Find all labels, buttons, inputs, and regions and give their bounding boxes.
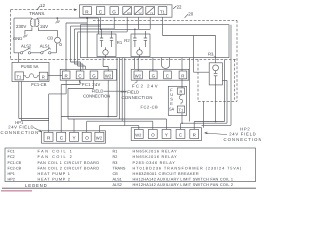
svg-text:230V: 230V <box>16 24 26 29</box>
svg-text:G: G <box>152 74 156 79</box>
svg-text:5A: 5A <box>169 107 174 112</box>
svg-text:C: C <box>78 74 81 79</box>
svg-text:C: C <box>99 9 103 14</box>
node 24V bus ground tap <box>56 17 58 19</box>
dashed bottom edge spanning units <box>11 58 238 60</box>
thermostat 22 outline <box>80 5 173 17</box>
dashed enclosure unit 20 top edge <box>93 19 237 21</box>
FC2 terminal W2 <box>134 71 142 79</box>
svg-text:FC2-CB: FC2-CB <box>141 105 159 110</box>
wire thermostat C drop <box>100 17 102 29</box>
FC1 terminal strip outline <box>60 69 116 80</box>
wire transformer primary bottom to GND <box>25 27 32 34</box>
fuse block FC2-CB outline <box>168 86 186 115</box>
arrow HP1 label <box>34 128 42 132</box>
wire FC1 W2 down to C bus <box>107 80 109 116</box>
HP1 terminal W2 <box>95 132 104 141</box>
wire T1 to R3 run <box>163 36 216 73</box>
wire FC2 R aux drop <box>189 58 191 122</box>
legend rows <box>8 150 243 188</box>
reference numeral 20 <box>185 11 194 17</box>
dashed enclosure unit 12 top edge with arrow <box>11 9 73 11</box>
transformer secondary coil <box>36 19 39 27</box>
svg-text:ALS2: ALS2 <box>113 183 122 187</box>
svg-text:G: G <box>92 74 96 79</box>
HP1 terminal Y <box>70 132 79 141</box>
svg-text:HN65KJ016 RELAY: HN65KJ016 RELAY <box>133 150 178 154</box>
wire CB to ALS1 <box>51 43 57 53</box>
svg-text:FIELD: FIELD <box>127 89 139 94</box>
svg-text:FAN COIL 1 CIRCUIT BOARD: FAN COIL 1 CIRCUIT BOARD <box>38 161 100 165</box>
node fuse bus <box>181 122 183 124</box>
wire transformer secondary bottom to CB <box>38 27 57 37</box>
FC1 terminal W2 <box>104 71 113 79</box>
thermostat terminal G <box>110 7 118 15</box>
svg-text:12: 12 <box>40 3 45 8</box>
svg-text:W2: W2 <box>96 135 103 140</box>
svg-text:HEAT PUMP 1: HEAT PUMP 1 <box>38 172 71 176</box>
ground chassis symbol <box>55 18 60 23</box>
svg-text:LEGEND: LEGEND <box>25 183 47 188</box>
wire C bus <box>61 58 117 117</box>
HP2 terminal O <box>148 130 157 139</box>
fuse terminal R vertical block <box>177 88 184 94</box>
relay R2 contact a <box>133 29 136 47</box>
svg-text:Y1: Y1 <box>150 12 154 15</box>
svg-text:Y2: Y2 <box>138 12 142 15</box>
wire right bus to HP2 R <box>194 59 224 129</box>
HP2 terminal R <box>190 130 199 139</box>
svg-text:T1: T1 <box>160 9 166 14</box>
circuit breaker CB <box>47 36 62 46</box>
FC1 terminal R <box>62 71 70 79</box>
svg-text:G: G <box>112 9 116 14</box>
bottom rule <box>2 187 256 189</box>
svg-text:O: O <box>85 136 89 141</box>
arrowhead into thermostat <box>74 9 77 11</box>
label FC1 24V with hook <box>79 80 81 83</box>
wire FC2 R drop to fuse <box>181 58 183 88</box>
thermostat terminal R <box>83 7 91 15</box>
wire fuse T1 down <box>19 82 49 121</box>
svg-text:R3: R3 <box>208 52 214 57</box>
relay R1 contact b <box>110 31 113 47</box>
wire fuse T1 down to HP2 C <box>181 113 183 130</box>
svg-text:W2: W2 <box>127 12 131 15</box>
svg-text:R2: R2 <box>124 38 130 43</box>
reference numeral 22 <box>173 5 182 10</box>
relay R2 contact b <box>144 31 147 47</box>
wire HP2 side drop <box>202 101 204 127</box>
svg-text:FAN COIL 1: FAN COIL 1 <box>38 150 74 154</box>
wire ALS2 to fuse T1 <box>14 53 20 63</box>
svg-text:W2: W2 <box>135 132 142 137</box>
svg-text:CONNECTION: CONNECTION <box>1 130 40 135</box>
svg-text:HP2: HP2 <box>8 178 15 182</box>
wire fuse R to FC1 R <box>48 75 63 77</box>
wire FC1 C down to HP1 C <box>61 80 80 132</box>
relay R2 box <box>131 34 150 57</box>
svg-text:FC1: FC1 <box>8 150 15 154</box>
svg-text:FC1-CB: FC1-CB <box>8 161 22 165</box>
HP2 terminal W2 <box>134 130 143 139</box>
wire R3 right to bus <box>182 80 227 123</box>
transformer core <box>34 19 35 27</box>
svg-text:R: R <box>180 89 183 94</box>
svg-text:TRANS: TRANS <box>113 166 126 170</box>
svg-text:CB: CB <box>113 172 119 176</box>
wire stair bus 3 <box>74 29 114 69</box>
svg-text:ALS1: ALS1 <box>113 178 122 182</box>
dashed enclosure unit 12 left edge <box>10 10 12 60</box>
arrow HP2 label <box>205 132 228 135</box>
svg-text:FC2 24V: FC2 24V <box>132 83 159 88</box>
svg-text:HP2: HP2 <box>240 126 250 131</box>
wire Y bus <box>68 58 167 133</box>
svg-text:R1: R1 <box>113 150 118 154</box>
dashed enclosure unit 20 right edge <box>236 20 238 101</box>
svg-text:HP1: HP1 <box>8 172 15 176</box>
svg-text:HEAT PUMP 2: HEAT PUMP 2 <box>38 178 71 182</box>
svg-text:FC2: FC2 <box>8 155 15 159</box>
reference numeral 12 <box>37 3 45 9</box>
fuse block FC1-CB outline <box>12 62 49 81</box>
HP1 terminal O <box>82 132 91 141</box>
HP2 terminal Y <box>162 130 171 139</box>
HP1 terminal strip outline <box>42 131 106 143</box>
node W2 on C bus <box>107 116 109 118</box>
node R bus junction <box>86 17 88 19</box>
svg-text:20: 20 <box>188 11 193 16</box>
wire FC1 G down to Y bus <box>68 80 94 119</box>
node relay bus 2 <box>134 29 136 31</box>
thermostat terminal C <box>96 7 104 15</box>
svg-text:P283-0346 RELAY: P283-0346 RELAY <box>133 161 176 165</box>
label FIELD right with dash <box>121 91 127 93</box>
wire relay top bus <box>101 28 151 30</box>
dash between field labels <box>104 90 127 92</box>
wire thermostat R drop <box>86 17 88 57</box>
svg-text:ALS2: ALS2 <box>21 44 32 49</box>
svg-text:O: O <box>151 133 155 138</box>
svg-text:CONNECTION: CONNECTION <box>224 137 262 142</box>
FC1 terminal G <box>90 71 98 79</box>
limit switch ALS1 <box>40 44 51 54</box>
legend box <box>5 148 256 182</box>
fuse element vertical <box>179 94 183 104</box>
fuse terminal T1 <box>15 72 24 80</box>
svg-text:R: R <box>65 74 68 79</box>
ground GND symbol <box>23 35 28 38</box>
svg-text:R: R <box>47 136 51 141</box>
svg-text:FC1 24V: FC1 24V <box>82 82 101 87</box>
svg-text:W2: W2 <box>135 74 142 79</box>
relay R2 coil <box>137 50 142 55</box>
wire thermostat G drop <box>113 17 115 29</box>
svg-text:FC1-CB: FC1-CB <box>31 82 46 87</box>
fuse terminal T1 vertical block <box>177 106 184 113</box>
svg-text:W2: W2 <box>105 74 112 79</box>
svg-text:CONNECTION: CONNECTION <box>122 95 153 100</box>
svg-text:E: E <box>170 101 173 106</box>
HP2 terminal C <box>176 130 185 139</box>
svg-text:HN65KJ016 RELAY: HN65KJ016 RELAY <box>133 155 178 159</box>
wire R3 bottom <box>215 85 217 122</box>
thermostat stage switch Y2 <box>134 7 143 15</box>
svg-text:R: R <box>181 74 184 79</box>
svg-text:HH12HA142 AUXILIARY LIMIT SWIT: HH12HA142 AUXILIARY LIMIT SWITCH FAN COI… <box>133 178 234 182</box>
svg-text:FUSE 5A: FUSE 5A <box>21 64 39 69</box>
limit switch ALS2 <box>20 44 32 54</box>
svg-text:CB: CB <box>47 36 53 41</box>
svg-text:GND: GND <box>13 36 22 41</box>
wire thermostat T1 drop <box>162 17 164 35</box>
relay R3 coil <box>213 65 219 71</box>
relay R1 coil <box>103 50 108 55</box>
wire stair bus 1 <box>66 23 87 71</box>
wire right bus to HP2 container <box>202 25 232 126</box>
svg-text:HH12HA142 AUXILIARY LIMIT SWIT: HH12HA142 AUXILIARY LIMIT SWITCH FAN COI… <box>133 183 234 187</box>
relay R1 box <box>97 34 116 57</box>
svg-text:CONNECTION: CONNECTION <box>83 93 110 98</box>
wire hairpin above FC2 C <box>162 58 170 69</box>
svg-text:C: C <box>166 74 169 79</box>
svg-text:HH83ZB001 CIRCUIT BREAKER: HH83ZB001 CIRCUIT BREAKER <box>133 172 199 176</box>
FC2 terminal strip outline <box>131 69 189 80</box>
wire O bus <box>87 58 153 133</box>
svg-text:T1: T1 <box>179 108 184 113</box>
wire FC2 W2 drop from box <box>135 58 139 71</box>
wire FC2 G drop from box <box>152 58 154 71</box>
svg-text:C: C <box>179 133 182 138</box>
fuse terminal R <box>39 72 48 80</box>
HP2 terminal strip outline <box>131 128 201 141</box>
relay R1 contact a <box>100 29 103 47</box>
svg-text:R2: R2 <box>113 155 118 159</box>
fuse element <box>24 74 40 78</box>
relay R3 contact <box>214 71 218 85</box>
svg-text:R: R <box>42 75 45 80</box>
thermostat stage switch W2 <box>123 7 132 15</box>
svg-text:FC2-CB: FC2-CB <box>8 166 22 170</box>
wire thermostat Y2 drop <box>138 17 140 29</box>
svg-text:R3: R3 <box>113 161 118 165</box>
pink artifact line <box>1 190 32 192</box>
wire transformer primary top <box>14 18 32 53</box>
svg-text:C: C <box>60 136 64 141</box>
HP1 terminal C <box>57 132 66 141</box>
svg-text:R1: R1 <box>117 40 123 45</box>
node R3 bottom junction <box>215 121 217 123</box>
svg-text:22: 22 <box>177 5 182 10</box>
wire thermostat W2 drop <box>126 17 128 32</box>
FC2 terminal R <box>179 71 187 79</box>
svg-text:R: R <box>193 133 196 138</box>
wire stair bus 2 <box>71 26 101 71</box>
HP1 terminal R <box>44 132 53 141</box>
label FC2 24V with hook <box>135 80 137 83</box>
svg-text:T1: T1 <box>17 75 23 80</box>
wire 24V bus from secondary <box>37 18 98 34</box>
wire W2 bus <box>99 58 138 133</box>
wire ALS1 to ALS2 <box>31 52 41 54</box>
svg-text:HT01BD236 TRANSFORMER (230/24: HT01BD236 TRANSFORMER (230/24 75VA) <box>133 166 243 170</box>
FC2 terminal C <box>164 71 172 79</box>
relay R3 box <box>209 63 222 85</box>
svg-text:24V: 24V <box>40 24 48 29</box>
svg-text:Y: Y <box>165 133 168 138</box>
wire stair bus 4 <box>78 32 128 69</box>
thermostat stage switch Y1 <box>146 7 155 15</box>
thermostat terminal T1 <box>158 7 167 15</box>
svg-text:Y: Y <box>73 136 76 141</box>
svg-text:FAN COIL 2 CIRCUIT BOARD: FAN COIL 2 CIRCUIT BOARD <box>38 166 100 170</box>
wire thermostat Y1 drop <box>149 17 151 29</box>
svg-text:24V FIELD: 24V FIELD <box>229 132 256 137</box>
FC1 terminal C <box>76 71 84 79</box>
transformer primary coil <box>30 19 33 27</box>
svg-text:FAN COIL 2: FAN COIL 2 <box>38 155 74 159</box>
wire FC1 W2 feed from box <box>103 58 108 71</box>
svg-text:R: R <box>85 9 89 14</box>
wire FC1 R down to HP1 R <box>49 80 66 132</box>
node relay bus <box>100 29 102 31</box>
FC2 terminal G <box>149 71 157 79</box>
dashed HP2 sub-enclosure <box>198 59 237 101</box>
svg-text:TRANS.: TRANS. <box>29 11 45 16</box>
big control box outline <box>81 25 230 58</box>
